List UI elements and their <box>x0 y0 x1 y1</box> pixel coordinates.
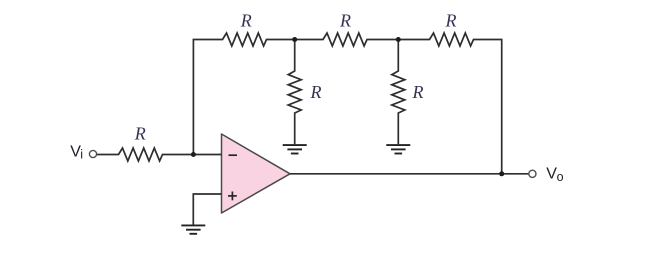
svg-text:R: R <box>240 11 252 31</box>
svg-text:R: R <box>445 11 457 31</box>
svg-text:R: R <box>412 82 424 102</box>
svg-text:i: i <box>80 148 83 162</box>
svg-text:R: R <box>134 123 146 143</box>
svg-text:o: o <box>557 170 564 184</box>
svg-text:R: R <box>339 11 351 31</box>
svg-text:R: R <box>310 82 322 102</box>
